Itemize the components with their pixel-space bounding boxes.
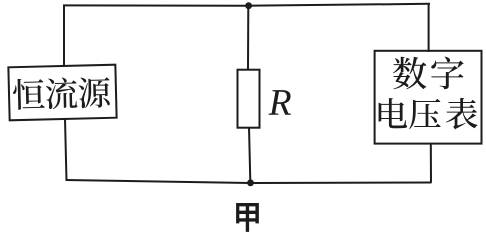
wire right vertical upper (428, 4, 430, 52)
wire bottom horizontal (66, 180, 432, 183)
wire left-bottom vertical (65, 119, 67, 182)
wire left vertical (63, 5, 65, 68)
box digital voltmeter 数字电压表 (375, 51, 482, 144)
label 电压表 (379, 98, 408, 128)
wire right-bottom vertical (430, 143, 432, 183)
node top junction (245, 2, 252, 9)
node bottom junction (247, 179, 254, 186)
wire top horizontal (63, 4, 430, 6)
box constant-current source 恒流源 (8, 65, 116, 121)
label 数字 (393, 57, 426, 90)
wire middle vertical lower (249, 127, 250, 181)
label 恒流源 (13, 78, 45, 110)
wire middle vertical upper (247, 5, 249, 70)
caption 甲 (figure label) (236, 203, 259, 232)
label R (268, 90, 290, 115)
resistor R (238, 70, 260, 128)
